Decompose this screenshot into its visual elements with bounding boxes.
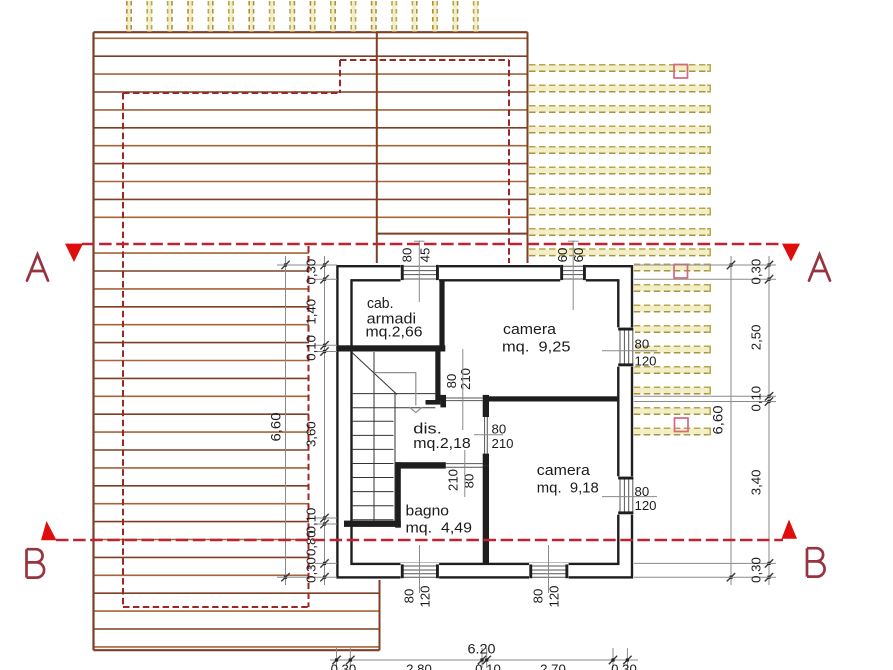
- svg-text:6.20: 6.20: [468, 642, 496, 657]
- svg-text:210: 210: [492, 436, 514, 451]
- svg-text:0,30: 0,30: [304, 557, 319, 583]
- svg-text:0,10: 0,10: [304, 335, 319, 361]
- svg-text:0.30: 0.30: [611, 662, 637, 670]
- svg-text:1,40: 1,40: [304, 299, 319, 325]
- svg-text:0,10: 0,10: [304, 508, 319, 534]
- svg-text:2.70: 2.70: [540, 662, 566, 670]
- svg-text:120: 120: [635, 498, 657, 513]
- svg-text:80: 80: [400, 248, 415, 263]
- svg-text:80: 80: [402, 589, 417, 604]
- svg-text:80: 80: [531, 589, 546, 604]
- svg-text:120: 120: [635, 354, 657, 369]
- svg-text:mq.2,66: mq.2,66: [366, 325, 423, 341]
- svg-text:0,10: 0,10: [749, 386, 764, 412]
- svg-text:2.80: 2.80: [406, 662, 432, 670]
- svg-text:0,30: 0,30: [749, 259, 764, 285]
- svg-text:mq.2,18: mq.2,18: [413, 436, 471, 452]
- svg-text:0,30: 0,30: [304, 259, 319, 285]
- svg-text:80: 80: [635, 336, 650, 351]
- svg-text:0.10: 0.10: [475, 662, 501, 670]
- svg-text:mq. 9,25: mq. 9,25: [502, 339, 571, 355]
- svg-text:mq. 9,18: mq. 9,18: [537, 481, 599, 497]
- svg-text:3,40: 3,40: [749, 470, 764, 496]
- svg-text:6,60: 6,60: [710, 405, 726, 434]
- svg-text:210: 210: [458, 368, 473, 390]
- svg-text:80: 80: [444, 374, 459, 389]
- svg-text:mq. 4,49: mq. 4,49: [406, 520, 473, 536]
- svg-text:cab.: cab.: [367, 296, 394, 312]
- svg-text:camera: camera: [537, 463, 590, 479]
- svg-text:0,30: 0,30: [749, 557, 764, 583]
- svg-text:80: 80: [462, 474, 477, 489]
- svg-text:80: 80: [492, 422, 507, 437]
- svg-text:6,60: 6,60: [268, 412, 284, 441]
- svg-text:2,50: 2,50: [749, 325, 764, 351]
- svg-text:bagno: bagno: [406, 504, 450, 520]
- svg-text:3,60: 3,60: [304, 421, 319, 447]
- svg-text:camera: camera: [503, 322, 556, 338]
- svg-text:210: 210: [446, 469, 461, 491]
- svg-text:60: 60: [555, 248, 570, 263]
- svg-text:0.30: 0.30: [331, 662, 357, 670]
- svg-text:0,80: 0,80: [304, 530, 319, 556]
